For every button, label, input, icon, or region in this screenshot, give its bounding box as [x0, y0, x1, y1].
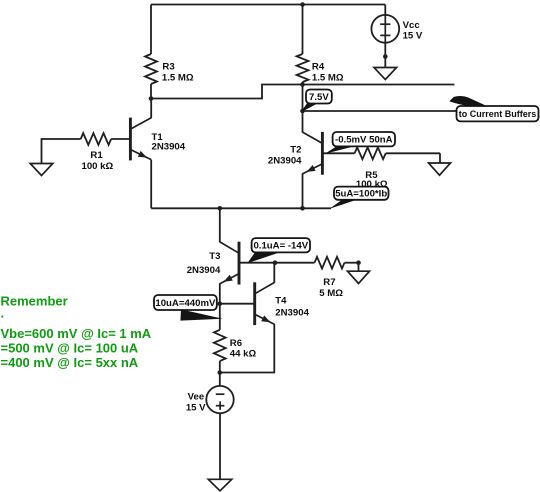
svg-text:-0.5mV 50nA: -0.5mV 50nA — [335, 135, 393, 146]
svg-text:44 kΩ: 44 kΩ — [230, 349, 257, 360]
svg-text:100 kΩ: 100 kΩ — [82, 161, 114, 172]
svg-text:Vee: Vee — [188, 391, 205, 402]
svg-text:R4: R4 — [312, 61, 325, 72]
svg-text:to Current Buffers: to Current Buffers — [459, 109, 537, 119]
svg-text:R7: R7 — [323, 277, 335, 288]
svg-text:=400 mV @ Ic= 5xx nA: =400 mV @ Ic= 5xx nA — [1, 355, 139, 370]
svg-text:=500 mV @ Ic= 100 uA: =500 mV @ Ic= 100 uA — [1, 341, 139, 356]
svg-text:T2: T2 — [290, 144, 301, 155]
svg-text:7.5V: 7.5V — [309, 92, 329, 103]
svg-text:R6: R6 — [230, 338, 242, 349]
svg-text:10uA=440mV: 10uA=440mV — [155, 298, 216, 309]
svg-text:Vcc: Vcc — [403, 20, 421, 31]
svg-text:.: . — [1, 306, 5, 321]
svg-text:1.5 MΩ: 1.5 MΩ — [162, 73, 194, 84]
svg-text:Vbe=600 mV @ Ic= 1 mA: Vbe=600 mV @ Ic= 1 mA — [1, 326, 152, 341]
svg-text:2N3904: 2N3904 — [187, 265, 221, 276]
svg-text:R3: R3 — [162, 61, 174, 72]
svg-text:R1: R1 — [90, 150, 103, 161]
svg-text:2N3904: 2N3904 — [152, 142, 186, 153]
svg-text:T4: T4 — [275, 296, 287, 307]
svg-text:0.1uA= -14V: 0.1uA= -14V — [253, 241, 308, 252]
svg-text:15 V: 15 V — [403, 31, 423, 42]
svg-text:5uA=100*Ib: 5uA=100*Ib — [335, 189, 387, 200]
svg-text:1.5 MΩ: 1.5 MΩ — [312, 73, 344, 84]
svg-text:5 MΩ: 5 MΩ — [319, 288, 343, 299]
svg-text:100 kΩ: 100 kΩ — [356, 179, 388, 190]
svg-text:15 V: 15 V — [186, 403, 206, 414]
svg-text:T3: T3 — [209, 251, 220, 262]
svg-text:2N3904: 2N3904 — [275, 307, 309, 318]
svg-text:Remember: Remember — [1, 293, 68, 308]
svg-text:2N3904: 2N3904 — [268, 156, 302, 167]
